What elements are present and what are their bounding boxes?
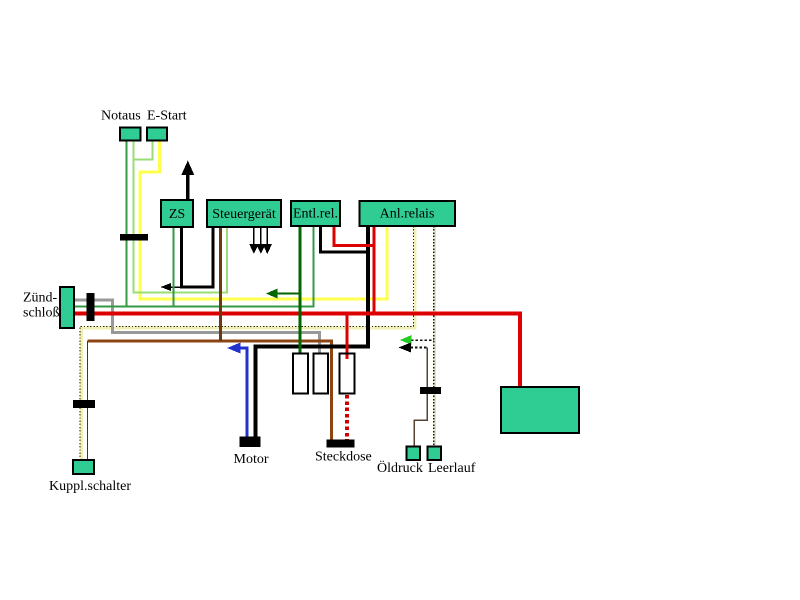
box Leerlauf [428, 447, 442, 461]
wire black from Anl.relais down-left-down to Motor [256, 226, 369, 439]
box ZS [161, 200, 193, 227]
wire blue to Motor with left arrow [227, 343, 247, 439]
box battery [501, 387, 579, 433]
wire dark-brown thin from brown bus down to Kuppl.schalter [87, 341, 89, 460]
svg-text:Leerlauf: Leerlauf [428, 461, 476, 476]
fuse F1 [293, 354, 308, 394]
label Zuendschloss line1 [23, 291, 58, 306]
svg-text:schloß: schloß [23, 306, 60, 321]
arrow black up above ZS [181, 161, 194, 201]
red pin stub inside fuse F3 [346, 355, 349, 360]
arrow black left near ZS [161, 283, 172, 291]
label Oeldruck [377, 459, 423, 476]
fuse F2 [314, 354, 329, 394]
wire dark-brown from Steuergeraet down to brown bus [219, 227, 222, 341]
wire green bus from Zuendschloss right, up to Entl.rel pin 2 [74, 226, 314, 307]
label Kuppl.schalter [49, 479, 131, 494]
label Notaus [101, 109, 141, 124]
wire red branch down to fuse F3 [346, 314, 349, 354]
ground pins under Steuergeraet [254, 227, 267, 245]
svg-text:Entl.rel.: Entl.rel. [293, 207, 338, 222]
box Kuppl.schalter [73, 460, 94, 474]
box Zuendschloss [60, 287, 74, 328]
wire red from Anl.relais down to red main [373, 226, 376, 314]
Motor terminal bar [240, 437, 261, 448]
label Zuendschloss line2 [23, 306, 60, 321]
box Steuergeraet [207, 200, 281, 227]
box E-Start [147, 128, 167, 141]
svg-text:Anl.relais: Anl.relais [380, 207, 435, 222]
wire dotted red from fuse F3 to Steckdose [345, 395, 349, 440]
label Leerlauf [428, 461, 476, 476]
svg-text:Kuppl.schalter: Kuppl.schalter [49, 479, 131, 494]
wire black U between ZS and Steuergeraet [182, 227, 214, 287]
wire red main from Zuendschloss to battery box [74, 314, 520, 388]
wire yellow-black dotted from Anl.relais left along bus down to Kuppl.schalter [80, 226, 415, 460]
wire pale-green from Notaus down then right to Steuergeraet pin [134, 140, 228, 293]
label ZS [169, 207, 185, 222]
wire gray from Zuendschloss to fuse F2 [74, 300, 320, 354]
connector bar above Oeldruck/Leerlauf [420, 387, 441, 394]
svg-text:Zünd-: Zünd- [23, 291, 58, 306]
label Steuergeraet [212, 207, 276, 222]
wire dashed black with black arrow to Oeldruck line [399, 343, 428, 353]
wire dark-green from Entl.rel to fuse F1 [299, 226, 302, 354]
connector bar over Notaus/E-Start wires [120, 234, 148, 241]
wire green-black dotted from Anl.relais down to Leerlauf [434, 226, 435, 447]
box Notaus [120, 128, 141, 141]
wire green from Notaus down to green bus [126, 140, 128, 307]
wire pale-green branch from E-Start joining Notaus pale-green [134, 140, 153, 160]
svg-text:Öldruck: Öldruck [377, 459, 423, 476]
svg-text:Steckdose: Steckdose [315, 450, 372, 465]
wire dark thin from arrow down to Oeldruck [414, 348, 427, 447]
wire black thin to left arrow at ZS [168, 286, 182, 288]
wire dashed black with green arrow to Leerlauf line [400, 335, 434, 345]
connector bar above Kuppl.schalter [73, 400, 95, 408]
wire dark-green branch with left arrow [266, 289, 300, 299]
label Entl.rel [293, 207, 338, 222]
wire green from ZS down to green bus [173, 227, 175, 307]
label Motor [234, 452, 269, 467]
fuse F3 [340, 354, 355, 394]
wire brown bus from Kuppl corner right to Steckdose [88, 341, 332, 440]
svg-text:Notaus: Notaus [101, 109, 141, 124]
label Anl.relais [380, 207, 435, 222]
wire red from Entl.rel to Anl.relais red [334, 226, 374, 246]
svg-text:Motor: Motor [234, 452, 269, 467]
svg-text:ZS: ZS [169, 207, 185, 222]
label Steckdose [315, 450, 372, 465]
svg-text:E-Start: E-Start [147, 109, 187, 124]
Steckdose terminal bar [327, 440, 355, 448]
box Anl.relais [360, 201, 456, 226]
label E-Start [147, 109, 187, 124]
connector bar at Zuendschloss [87, 293, 95, 321]
svg-text:Steuergerät: Steuergerät [212, 207, 276, 222]
wire yellow from E-Start down, right along bus, up to Anl.relais [140, 140, 387, 299]
box Entl.rel [291, 201, 340, 226]
wire black from Entl.rel joining Anl.relais black [321, 226, 369, 252]
ground arrowheads under Steuergeraet [249, 244, 272, 254]
box Oeldruck [407, 447, 421, 461]
